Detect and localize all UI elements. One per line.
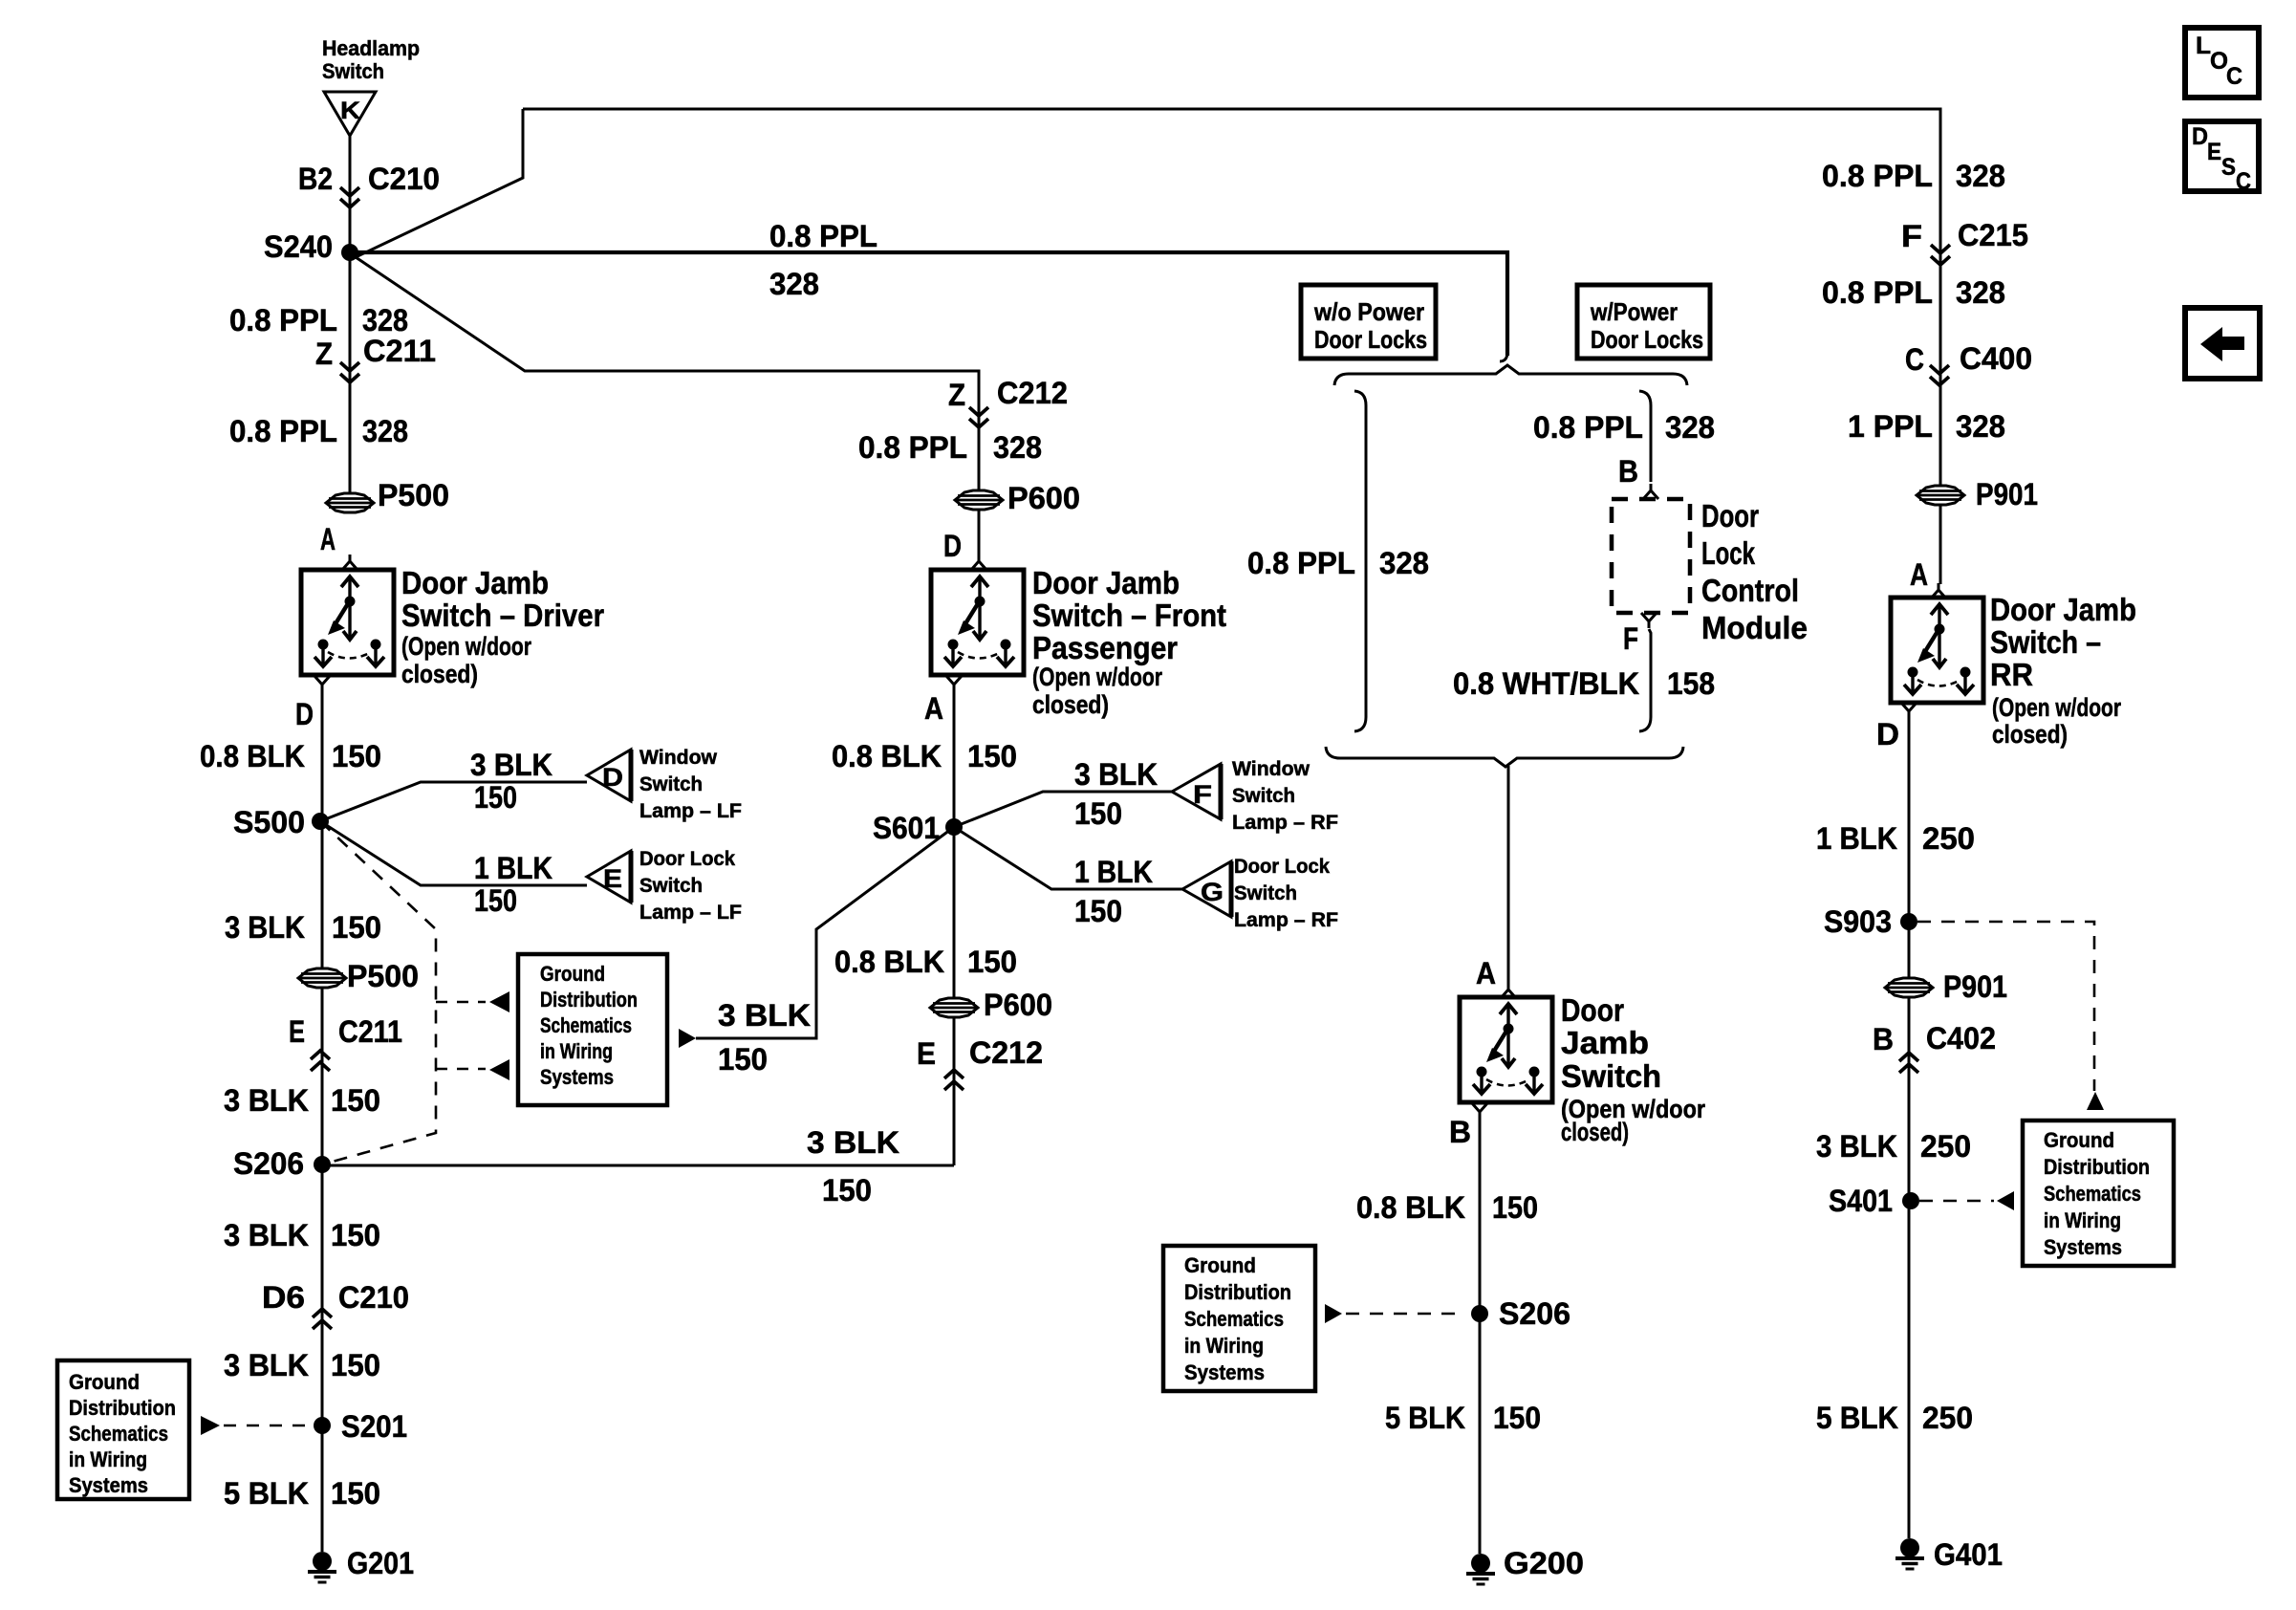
- svg-text:Switch: Switch: [1232, 785, 1295, 807]
- dashed reference line from S903 to right ground distribution box: [1917, 922, 2094, 1091]
- svg-text:A: A: [1910, 557, 1928, 592]
- connector fork at Door Lock Control Module pin F: [1641, 613, 1657, 628]
- in-line connector C402 chevrons up: [1899, 1053, 1918, 1073]
- svg-text:0.8 PPL: 0.8 PPL: [1822, 159, 1933, 193]
- right option path lower wire 0.8 WHT/BLK 158: [1639, 629, 1651, 731]
- svg-text:328: 328: [362, 414, 408, 448]
- wire end hook above brace: [1500, 354, 1507, 361]
- connector fork at Door Jamb Switch RR pin D: [1901, 703, 1917, 718]
- dashed stub to upper arrow: [436, 1001, 486, 1004]
- svg-text:150: 150: [332, 910, 381, 945]
- svg-text:150: 150: [1493, 1401, 1541, 1435]
- svg-text:P500: P500: [347, 959, 419, 993]
- switch: Door Jamb Switch (center): [1460, 997, 1552, 1102]
- svg-text:Door Jamb: Door Jamb: [401, 565, 549, 600]
- svg-text:158: 158: [1667, 666, 1715, 701]
- svg-text:150: 150: [331, 1476, 380, 1511]
- wire: S240 up-right to top bus corner: [356, 109, 523, 257]
- reference arrow toward center S206: [1325, 1304, 1342, 1323]
- svg-text:Switch: Switch: [639, 875, 703, 897]
- splice S201: [314, 1417, 331, 1434]
- svg-text:0.8 BLK: 0.8 BLK: [200, 739, 305, 773]
- svg-text:150: 150: [822, 1173, 872, 1207]
- splice S240: [341, 244, 358, 261]
- connector fork at Door Jamb Switch Driver pin A: [342, 555, 357, 570]
- svg-text:150: 150: [474, 883, 517, 918]
- svg-text:Switch: Switch: [639, 773, 703, 795]
- svg-text:B: B: [1873, 1022, 1894, 1056]
- in-line connector C210 chevrons: [340, 187, 359, 207]
- svg-text:Switch: Switch: [1234, 882, 1297, 904]
- wire: S240 to power door lock branch (0.8 PPL 328): [357, 252, 1507, 356]
- option box: w/Power Door Locks: [1577, 285, 1710, 359]
- connector fork at Door Jamb Switch RR pin A: [1931, 583, 1946, 598]
- splice S903: [1900, 913, 1917, 930]
- svg-text:in Wiring: in Wiring: [540, 1039, 613, 1063]
- dashed reference line to S201: [224, 1425, 314, 1427]
- svg-text:Switch – Front: Switch – Front: [1032, 598, 1226, 633]
- svg-text:Ground: Ground: [2044, 1128, 2114, 1152]
- svg-text:150: 150: [1074, 796, 1122, 831]
- reference box: Ground Distribution Schematics in Wiring Systems (bottom middle): [1163, 1246, 1315, 1391]
- svg-text:0.8 PPL: 0.8 PPL: [1247, 546, 1355, 580]
- svg-text:Systems: Systems: [69, 1473, 148, 1497]
- in-line connector C210 chevrons up: [313, 1309, 332, 1329]
- svg-text:Control: Control: [1701, 573, 1799, 608]
- svg-text:Lamp – LF: Lamp – LF: [639, 800, 742, 822]
- svg-text:P500: P500: [378, 478, 449, 512]
- svg-text:Z: Z: [315, 337, 333, 371]
- svg-text:Switch – Driver: Switch – Driver: [401, 598, 604, 633]
- svg-text:Ground: Ground: [540, 962, 605, 986]
- svg-text:C402: C402: [1926, 1021, 1996, 1055]
- svg-text:150: 150: [331, 1218, 380, 1252]
- svg-text:328: 328: [1956, 159, 2005, 193]
- reference arrow into middle box upper: [489, 991, 509, 1012]
- svg-text:C212: C212: [997, 376, 1068, 410]
- svg-text:1 BLK: 1 BLK: [1816, 821, 1897, 856]
- svg-text:Door Jamb: Door Jamb: [1990, 592, 2136, 627]
- svg-text:S601: S601: [873, 811, 940, 845]
- wire: S601 to Window Switch Lamp RF: [954, 792, 1172, 827]
- connector fork at center Door Jamb Switch pin B: [1472, 1103, 1487, 1119]
- splice S601: [945, 818, 963, 836]
- svg-text:E: E: [917, 1036, 936, 1071]
- svg-text:C: C: [2236, 168, 2251, 195]
- reference box: Ground Distribution Schematics in Wiring Systems (middle): [518, 954, 667, 1105]
- switch: Door Jamb Switch - RR: [1891, 598, 1983, 703]
- off-page connector F to Window Switch Lamp - RF: [1172, 764, 1221, 819]
- svg-text:C215: C215: [1958, 218, 2028, 252]
- svg-text:Door Locks: Door Locks: [1591, 325, 1703, 354]
- svg-text:Schematics: Schematics: [540, 1013, 632, 1037]
- off-page connector D to Window Switch Lamp - LF: [587, 750, 631, 801]
- svg-text:0.8 BLK: 0.8 BLK: [834, 945, 944, 979]
- splice S500: [312, 813, 329, 830]
- svg-text:F: F: [1901, 219, 1922, 253]
- ground G200: [1466, 1554, 1495, 1584]
- svg-text:C: C: [1905, 342, 1924, 377]
- svg-text:Schematics: Schematics: [1184, 1307, 1284, 1331]
- svg-text:328: 328: [1665, 410, 1715, 445]
- svg-text:150: 150: [967, 739, 1017, 773]
- svg-text:G201: G201: [347, 1546, 414, 1580]
- svg-text:0.8 PPL: 0.8 PPL: [229, 303, 337, 337]
- svg-text:Lock: Lock: [1701, 535, 1755, 571]
- svg-text:0.8 PPL: 0.8 PPL: [1533, 410, 1643, 445]
- ground G201: [308, 1552, 336, 1582]
- svg-text:S903: S903: [1824, 904, 1892, 939]
- svg-text:G401: G401: [1934, 1537, 2003, 1572]
- svg-text:Ground: Ground: [69, 1370, 140, 1394]
- svg-text:A: A: [1476, 956, 1496, 990]
- svg-text:E: E: [289, 1014, 305, 1049]
- pass-through grommet P500 lower: [298, 968, 346, 988]
- svg-text:1 PPL: 1 PPL: [1848, 409, 1933, 444]
- svg-text:D: D: [295, 697, 314, 731]
- svg-text:C211: C211: [338, 1014, 402, 1049]
- svg-text:closed): closed): [401, 660, 478, 688]
- svg-text:3 BLK: 3 BLK: [224, 1083, 309, 1118]
- reference arrow into middle box lower: [489, 1059, 509, 1080]
- wire: center door jamb switch down to ground G200: [1479, 1119, 1482, 1554]
- svg-text:G200: G200: [1504, 1546, 1584, 1580]
- svg-text:L: L: [2196, 33, 2211, 59]
- svg-text:Jamb: Jamb: [1561, 1025, 1649, 1060]
- svg-text:150: 150: [331, 1083, 380, 1118]
- right option path upper wire 0.8 PPL 328: [1639, 391, 1651, 482]
- svg-text:Door: Door: [1561, 992, 1624, 1028]
- svg-text:E: E: [603, 864, 622, 893]
- svg-text:S206: S206: [233, 1146, 304, 1181]
- svg-text:C212: C212: [969, 1035, 1043, 1070]
- back arrow icon: [2200, 327, 2244, 361]
- svg-text:328: 328: [1956, 409, 2005, 444]
- svg-text:Systems: Systems: [2044, 1235, 2122, 1259]
- svg-text:F: F: [1623, 621, 1638, 656]
- wire: S500 to Door Lock Switch Lamp LF: [320, 821, 587, 885]
- svg-text:1 BLK: 1 BLK: [474, 851, 552, 885]
- reference arrow from middle Ground Distribution box: [679, 1029, 696, 1048]
- svg-text:Door: Door: [1701, 498, 1759, 533]
- reference box: Ground Distribution Schematics in Wiring Systems (right): [2023, 1120, 2174, 1266]
- option box: w/o Power Door Locks: [1301, 285, 1436, 359]
- svg-text:150: 150: [331, 1348, 380, 1382]
- svg-text:3 BLK: 3 BLK: [470, 748, 552, 782]
- svg-text:250: 250: [1920, 1129, 1971, 1164]
- dashed stub to lower arrow: [436, 1068, 486, 1071]
- connector fork at Door Jamb Switch Front Passenger pin A: [946, 676, 962, 691]
- svg-text:150: 150: [332, 739, 381, 773]
- svg-text:150: 150: [718, 1042, 768, 1077]
- svg-text:0.8 PPL: 0.8 PPL: [769, 219, 877, 253]
- svg-text:150: 150: [474, 780, 517, 815]
- left option path 0.8 PPL 328 (w/o power door locks): [1354, 391, 1366, 731]
- svg-text:0.8 BLK: 0.8 BLK: [832, 739, 942, 773]
- in-line connector C215 chevrons: [1931, 245, 1950, 265]
- svg-text:3 BLK: 3 BLK: [224, 1348, 309, 1382]
- svg-text:closed): closed): [1032, 690, 1109, 719]
- svg-text:5 BLK: 5 BLK: [224, 1476, 309, 1511]
- svg-text:K: K: [340, 98, 360, 124]
- splice S401: [1902, 1192, 1919, 1209]
- connector fork at Door Jamb Switch Driver pin D: [314, 676, 330, 691]
- svg-text:Distribution: Distribution: [540, 988, 638, 1012]
- module: Door Lock Control Module (dashed outline): [1612, 499, 1690, 613]
- svg-text:(Open w/door: (Open w/door: [1032, 663, 1162, 691]
- splice S206: [314, 1156, 331, 1173]
- wire: S601 to Door Lock Switch Lamp RF: [954, 827, 1182, 889]
- pass-through grommet P600 lower: [930, 998, 978, 1017]
- svg-text:S: S: [2221, 154, 2236, 181]
- svg-text:closed): closed): [1992, 720, 2068, 749]
- svg-text:D: D: [1876, 717, 1899, 751]
- svg-text:5 BLK: 5 BLK: [1385, 1401, 1465, 1435]
- wire: S240 down-right to front passenger branch: [356, 257, 979, 555]
- reference arrow left of right box: [1997, 1191, 2014, 1210]
- svg-text:150: 150: [1492, 1190, 1538, 1225]
- splice S206 (center): [1471, 1305, 1488, 1322]
- off-page connector E to Door Lock Switch Lamp - LF: [587, 851, 631, 903]
- svg-text:150: 150: [1074, 894, 1122, 928]
- svg-text:w/Power: w/Power: [1590, 297, 1678, 326]
- svg-text:P600: P600: [1007, 481, 1080, 515]
- svg-text:(Open w/door: (Open w/door: [401, 632, 531, 661]
- svg-text:3 BLK: 3 BLK: [224, 1218, 309, 1252]
- svg-text:D: D: [602, 763, 623, 792]
- svg-text:P901: P901: [1943, 969, 2007, 1004]
- svg-text:328: 328: [1379, 546, 1429, 580]
- svg-text:Lamp – LF: Lamp – LF: [639, 902, 742, 924]
- svg-text:Lamp – RF: Lamp – RF: [1234, 909, 1338, 931]
- svg-text:Window: Window: [639, 747, 718, 769]
- svg-text:328: 328: [993, 430, 1042, 465]
- svg-text:150: 150: [967, 945, 1017, 979]
- svg-text:A: A: [320, 522, 336, 556]
- svg-text:S240: S240: [264, 229, 333, 264]
- svg-text:F: F: [1193, 780, 1212, 809]
- in-line connector C400 chevrons: [1930, 365, 1949, 385]
- svg-text:B: B: [1449, 1115, 1471, 1149]
- connector fork at Door Jamb Switch Front Passenger pin D: [971, 555, 986, 570]
- svg-text:S500: S500: [233, 805, 305, 839]
- svg-text:3 BLK: 3 BLK: [718, 998, 811, 1033]
- svg-text:Passenger: Passenger: [1032, 630, 1178, 665]
- svg-text:Systems: Systems: [1184, 1360, 1265, 1384]
- svg-text:1 BLK: 1 BLK: [1074, 855, 1153, 889]
- svg-text:D: D: [943, 529, 962, 563]
- svg-text:D6: D6: [262, 1280, 305, 1315]
- svg-text:S206: S206: [1499, 1296, 1570, 1331]
- pass-through grommet P901: [1917, 486, 1964, 505]
- connector fork at Door Lock Control Module pin B: [1643, 484, 1658, 499]
- svg-text:C210: C210: [368, 162, 440, 196]
- svg-text:0.8 WHT/BLK: 0.8 WHT/BLK: [1453, 666, 1639, 701]
- svg-text:B: B: [1618, 454, 1638, 489]
- in-line connector C211 chevrons up: [311, 1051, 330, 1071]
- in-line connector C212 chevrons: [969, 407, 988, 427]
- svg-text:Switch: Switch: [1561, 1058, 1661, 1094]
- wire: driver door jamb switch down to ground G201: [321, 691, 324, 1552]
- wire: S500 to Window Switch Lamp LF: [320, 782, 587, 821]
- svg-text:D: D: [2192, 123, 2208, 150]
- svg-text:0.8 PPL: 0.8 PPL: [229, 414, 337, 448]
- ground G401: [1895, 1538, 1924, 1569]
- svg-text:C: C: [2226, 63, 2242, 90]
- reference arrow above right box: [2087, 1092, 2104, 1110]
- svg-text:Door Locks: Door Locks: [1314, 325, 1427, 354]
- dashed reference line to center S206: [1346, 1313, 1464, 1316]
- svg-text:closed): closed): [1561, 1118, 1629, 1146]
- pass-through grommet P600: [955, 490, 1003, 510]
- wire: S206 across to front passenger branch: [322, 1164, 954, 1167]
- wire: RR door jamb switch down to ground G401: [1908, 718, 1911, 1538]
- legend box DESC: [2185, 121, 2259, 191]
- svg-text:3 BLK: 3 BLK: [225, 910, 305, 945]
- svg-text:Schematics: Schematics: [69, 1422, 168, 1446]
- dashed reference line from S401 to right box: [1919, 1200, 1994, 1203]
- svg-text:Schematics: Schematics: [2044, 1182, 2141, 1206]
- svg-text:G: G: [1201, 878, 1224, 906]
- svg-text:250: 250: [1922, 1401, 1973, 1435]
- reference arrow toward S201: [201, 1416, 220, 1435]
- svg-text:0.8 PPL: 0.8 PPL: [858, 430, 967, 465]
- svg-text:C211: C211: [363, 334, 436, 368]
- svg-text:w/o Power: w/o Power: [1313, 297, 1424, 326]
- headlamp switch connector triangle K: [324, 92, 376, 136]
- svg-text:Switch: Switch: [322, 59, 384, 83]
- svg-text:0.8 PPL: 0.8 PPL: [1822, 275, 1933, 310]
- svg-text:0.8 BLK: 0.8 BLK: [1356, 1190, 1465, 1225]
- wire: S601 down-left to ground distribution reference: [696, 827, 954, 1038]
- dashed reference line: S500 to S206 via ground distribution arrows: [320, 821, 436, 1164]
- svg-text:P600: P600: [984, 988, 1052, 1022]
- svg-text:Window: Window: [1232, 758, 1310, 780]
- in-line connector C211 chevrons: [340, 362, 359, 382]
- wire: top bus from corner to right column (to C215): [523, 109, 1940, 584]
- in-line connector C212 chevrons up: [944, 1070, 964, 1090]
- pass-through grommet P901 lower: [1885, 978, 1933, 997]
- svg-text:328: 328: [1956, 275, 2005, 310]
- switch: Door Jamb Switch - Driver: [301, 570, 394, 675]
- svg-text:Switch –: Switch –: [1990, 624, 2101, 660]
- wire: passenger door jamb switch down to S206 line: [953, 691, 956, 1165]
- svg-text:in Wiring: in Wiring: [2044, 1208, 2121, 1232]
- svg-text:Systems: Systems: [540, 1065, 614, 1089]
- svg-text:Lamp – RF: Lamp – RF: [1232, 812, 1338, 834]
- svg-text:3 BLK: 3 BLK: [1074, 757, 1158, 792]
- svg-text:S201: S201: [341, 1409, 407, 1444]
- svg-text:Door Lock: Door Lock: [1234, 856, 1330, 878]
- svg-text:328: 328: [362, 303, 408, 337]
- wire: headlamp switch pin K down to splice S240: [349, 136, 352, 493]
- svg-text:in Wiring: in Wiring: [1184, 1334, 1264, 1358]
- svg-text:S401: S401: [1829, 1184, 1893, 1218]
- bottom alternatives brace: [1326, 747, 1683, 767]
- svg-text:Distribution: Distribution: [1184, 1280, 1291, 1304]
- svg-text:(Open w/door: (Open w/door: [1992, 693, 2121, 722]
- reference box: Ground Distribution Schematics in Wiring Systems (lower left): [57, 1360, 189, 1499]
- svg-text:P901: P901: [1976, 477, 2038, 511]
- svg-text:C400: C400: [1960, 341, 2032, 376]
- svg-text:Z: Z: [948, 378, 965, 412]
- svg-text:Distribution: Distribution: [2044, 1155, 2150, 1179]
- svg-text:Headlamp: Headlamp: [322, 36, 420, 60]
- svg-text:3 BLK: 3 BLK: [1816, 1129, 1897, 1164]
- svg-text:Door Lock: Door Lock: [639, 848, 735, 870]
- svg-text:A: A: [924, 691, 943, 726]
- svg-text:Door Jamb: Door Jamb: [1032, 565, 1180, 600]
- svg-text:C210: C210: [338, 1280, 409, 1315]
- legend box LOC: [2185, 28, 2259, 98]
- wire: brace output down to center Door Jamb Switch pin A: [1507, 766, 1510, 983]
- svg-text:Module: Module: [1701, 610, 1808, 645]
- svg-text:250: 250: [1922, 821, 1975, 856]
- svg-text:E: E: [2207, 139, 2221, 165]
- svg-text:328: 328: [769, 267, 819, 301]
- svg-text:Distribution: Distribution: [69, 1396, 176, 1420]
- svg-text:Ground: Ground: [1184, 1253, 1256, 1277]
- legend box back-arrow: [2185, 308, 2260, 379]
- top alternatives brace: [1334, 365, 1687, 385]
- svg-text:5 BLK: 5 BLK: [1816, 1401, 1898, 1435]
- pass-through grommet P500: [326, 493, 374, 512]
- svg-text:3 BLK: 3 BLK: [807, 1125, 899, 1160]
- svg-text:in Wiring: in Wiring: [69, 1447, 147, 1471]
- switch: Door Jamb Switch - Front Passenger: [931, 570, 1024, 675]
- connector fork at center Door Jamb Switch pin A: [1501, 983, 1516, 998]
- off-page connector G to Door Lock Switch Lamp - RF: [1182, 861, 1231, 917]
- svg-text:B2: B2: [298, 162, 333, 196]
- svg-text:RR: RR: [1990, 657, 2033, 692]
